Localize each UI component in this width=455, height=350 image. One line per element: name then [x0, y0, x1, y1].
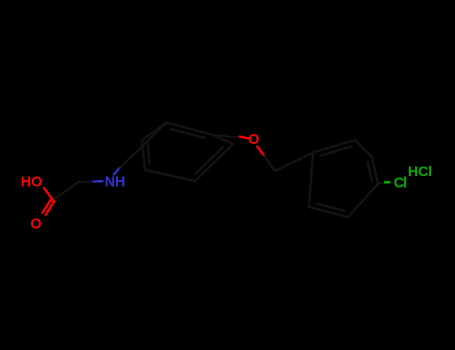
svg-text:HCl: HCl	[408, 163, 432, 179]
ring 1 inner double bond b	[196, 147, 223, 174]
bond CH2a-Oether red half	[240, 137, 248, 139]
bond ring2-Cl dark half	[378, 182, 383, 184]
svg-text:O: O	[248, 132, 259, 148]
bond ring1-CH2a	[213, 135, 228, 137]
bond N-C3 blue half	[114, 168, 120, 175]
bond C2-N blue half	[94, 180, 103, 183]
bond C3-ring1 ipso	[139, 122, 166, 149]
bond C1-C2 (carboxyl C to CH2)	[53, 182, 79, 201]
double bond C1=O line 2	[42, 200, 51, 213]
bond HO-C1 red	[44, 188, 53, 200]
svg-text:Cl: Cl	[394, 175, 406, 191]
benzene ring 2 outline	[309, 140, 378, 217]
bond C2-N dark half	[79, 180, 94, 183]
bond N-C3 dark half	[120, 150, 139, 168]
bond CH2a-Oether dark half	[228, 135, 240, 138]
ring 2 inner double bond a	[321, 147, 351, 156]
bond Oether-CH2b red half	[257, 147, 264, 156]
double bond C1=O line 1	[46, 202, 54, 215]
bond CH2b-ring2 ipso	[275, 153, 313, 172]
bond Oether-CH2b dark half	[264, 156, 275, 171]
svg-text:HO: HO	[21, 174, 42, 190]
ring 2 inner double bond c	[317, 204, 345, 211]
svg-text:O: O	[30, 217, 41, 233]
ring 1 inner double bond c	[148, 144, 150, 166]
svg-text:NH: NH	[105, 175, 126, 191]
ring 2 inner double bond b	[368, 162, 372, 181]
ring 1 inner double bond a	[171, 129, 205, 138]
benzene ring 1 outline	[142, 122, 233, 181]
bond ring2-Cl green half	[384, 181, 390, 184]
